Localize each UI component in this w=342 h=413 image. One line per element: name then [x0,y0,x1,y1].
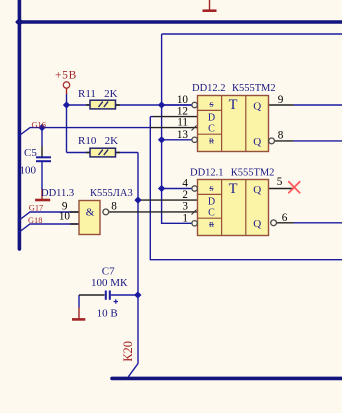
svg-text:11: 11 [177,117,188,129]
svg-text:C5: C5 [24,147,37,159]
svg-text:Q: Q [253,218,261,230]
svg-text:T: T [229,97,238,113]
svg-text:К555ТМ2: К555ТМ2 [232,83,276,94]
svg-text:К20: К20 [121,341,135,362]
svg-text:R11 2K: R11 2K [78,88,118,100]
svg-text:S: S [209,184,213,193]
svg-text:+5В: +5В [55,70,77,82]
svg-text:8: 8 [111,200,117,212]
svg-text:G16: G16 [32,120,46,129]
svg-text:R10 2K: R10 2K [78,135,118,147]
svg-text:T: T [229,181,238,197]
svg-text:1: 1 [182,212,188,224]
svg-text:DD12.2: DD12.2 [192,83,226,94]
svg-text:S: S [209,100,213,109]
svg-text:9: 9 [278,94,284,106]
svg-text:К555ТМ2: К555ТМ2 [231,168,275,179]
svg-text:DD11.3: DD11.3 [41,188,74,199]
svg-text:&: & [86,207,95,219]
svg-text:Q: Q [253,101,261,113]
svg-text:C7: C7 [102,265,115,277]
svg-text:10 В: 10 В [97,307,118,319]
svg-text:R: R [209,136,214,145]
svg-text:К555ЛА3: К555ЛА3 [90,188,133,199]
svg-text:8: 8 [278,130,284,142]
svg-text:6: 6 [282,212,288,224]
svg-text:Q: Q [253,136,261,148]
svg-text:D: D [208,197,215,208]
svg-text:DD12.1: DD12.1 [190,168,224,179]
svg-text:3: 3 [182,201,188,213]
svg-text:G17: G17 [29,204,43,213]
svg-text:Q: Q [253,184,261,196]
svg-text:R: R [209,220,214,229]
svg-text:5: 5 [277,176,283,188]
svg-text:4: 4 [182,178,188,190]
svg-text:D: D [208,113,215,124]
svg-text:G18: G18 [28,216,42,225]
svg-text:13: 13 [177,129,189,141]
svg-text:C: C [208,124,215,135]
svg-text:2: 2 [182,189,188,201]
svg-text:C: C [208,208,215,219]
svg-text:100 МК: 100 МК [91,277,128,289]
svg-text:10: 10 [59,210,71,222]
svg-text:100: 100 [20,165,37,177]
svg-text:10: 10 [177,94,189,106]
